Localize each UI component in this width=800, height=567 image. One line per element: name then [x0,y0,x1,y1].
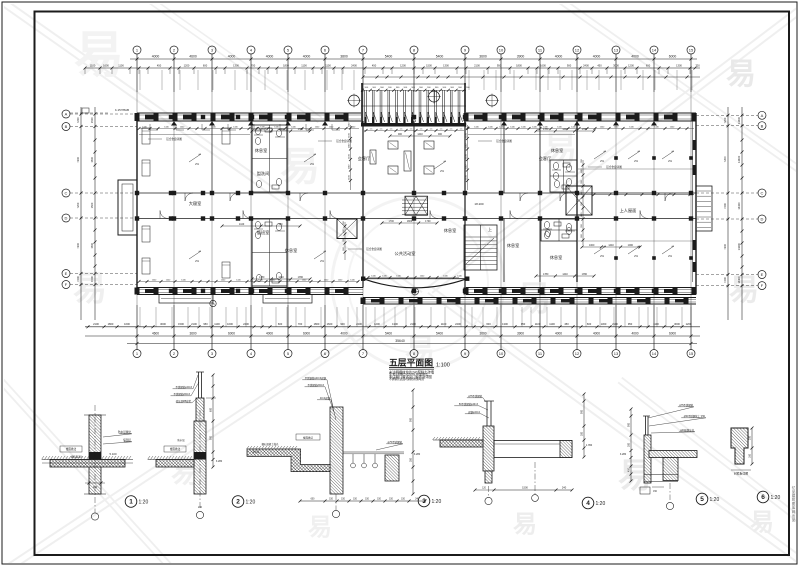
svg-text:1: 1 [129,499,133,506]
svg-text:上: 上 [488,226,492,232]
svg-text:不锈钢管φ50×3: 不锈钢管φ50×3 [308,383,325,387]
svg-text:14400: 14400 [737,155,741,163]
svg-text:950: 950 [521,322,526,326]
svg-text:14400: 14400 [737,202,741,210]
svg-text:240: 240 [93,485,98,489]
svg-text:3900: 3900 [517,54,525,58]
svg-text:易: 易 [280,145,320,189]
svg-text:700: 700 [298,322,303,326]
svg-text:φ50不锈钢管上下50: φ50不锈钢管上下50 [684,414,706,418]
svg-text:1600: 1600 [124,322,130,326]
svg-text:1300: 1300 [676,63,682,67]
svg-text:1100: 1100 [214,322,220,326]
svg-text:1300: 1300 [443,63,449,67]
svg-text:D: D [65,216,68,221]
svg-text:2100: 2100 [191,322,197,326]
svg-text:1100: 1100 [301,63,307,67]
svg-text:1100: 1100 [325,63,331,67]
svg-text:35640: 35640 [395,339,405,343]
svg-text:900: 900 [438,133,443,136]
svg-text:15: 15 [689,48,694,53]
svg-text:150: 150 [279,223,284,226]
svg-text:五层平面图: 五层平面图 [389,358,433,368]
svg-text:900: 900 [210,435,213,440]
svg-text:3600: 3600 [479,331,486,335]
svg-text:900: 900 [340,322,345,326]
svg-text:易: 易 [308,514,332,541]
svg-text:铝合金窗详图: 铝合金窗详图 [606,165,622,169]
svg-text:4000: 4000 [555,54,563,58]
svg-text:7200: 7200 [76,117,80,123]
svg-text:3: 3 [422,498,426,505]
svg-text:1:100: 1:100 [436,363,450,369]
svg-text:2400: 2400 [351,63,357,67]
svg-text:7200: 7200 [76,202,80,208]
svg-text:休息室: 休息室 [550,254,563,261]
svg-text:2400: 2400 [243,322,249,326]
svg-text:楼面做法: 楼面做法 [303,435,314,439]
svg-text:240: 240 [198,506,203,509]
svg-text:4000: 4000 [555,331,562,335]
svg-text:13: 13 [614,351,619,356]
svg-text:C: C [761,191,764,196]
svg-text:保温层: 保温层 [123,438,131,442]
svg-text:7200: 7200 [723,117,727,123]
svg-text:1500: 1500 [90,156,94,162]
svg-text:1:20: 1:20 [432,499,442,505]
svg-text:900: 900 [410,417,413,422]
svg-text:φ75不锈钢管: φ75不锈钢管 [679,403,693,407]
svg-text:C: C [65,191,68,196]
svg-text:楼面做法: 楼面做法 [170,447,181,451]
svg-text:5400: 5400 [385,331,392,335]
svg-text:450: 450 [628,467,631,472]
svg-text:1.5: 1.5 [450,128,453,130]
svg-text:4000: 4000 [631,54,639,58]
svg-text:7200: 7200 [723,203,727,209]
svg-text:防水层做法: 防水层做法 [118,430,131,434]
svg-text:3600: 3600 [479,54,487,58]
svg-text:950: 950 [628,322,633,326]
svg-text:350: 350 [410,457,413,462]
svg-text:1:20: 1:20 [710,497,720,503]
svg-text:休息室: 休息室 [507,242,520,249]
svg-text:5400: 5400 [436,54,444,58]
svg-text:1600: 1600 [103,63,109,67]
svg-text:细石混凝土: 细石混凝土 [71,455,84,459]
svg-text:1.5: 1.5 [380,128,383,130]
svg-text:铝合金窗详图: 铝合金窗详图 [166,137,182,141]
svg-text:2100: 2100 [410,322,416,326]
svg-text:10: 10 [499,48,504,53]
svg-text:1.5: 1.5 [390,128,393,130]
svg-text:1800: 1800 [314,322,320,326]
svg-text:700: 700 [251,63,256,67]
svg-text:600: 600 [210,407,213,412]
svg-text:10: 10 [499,351,504,356]
svg-text:1100: 1100 [343,228,345,233]
svg-text:1800: 1800 [108,322,114,326]
svg-text:4000: 4000 [152,54,160,58]
svg-text:1300: 1300 [502,322,508,326]
svg-text:1100: 1100 [549,322,555,326]
svg-text:1.5: 1.5 [400,128,403,130]
svg-text:1440: 1440 [562,273,568,276]
svg-text:1600: 1600 [327,322,333,326]
svg-text:600: 600 [203,63,208,67]
svg-text:1500: 1500 [178,322,184,326]
svg-text:1.5: 1.5 [440,128,443,130]
svg-text:15: 15 [689,351,694,356]
svg-text:1300: 1300 [233,63,239,67]
svg-text:1500: 1500 [426,63,432,67]
svg-text:扁钢φ40×4: 扁钢φ40×4 [468,410,480,414]
svg-text:300: 300 [628,442,631,447]
svg-text:7200: 7200 [723,243,727,249]
svg-text:3000: 3000 [674,322,680,326]
svg-text:2100: 2100 [474,63,480,67]
svg-text:1500: 1500 [90,117,94,123]
svg-text:值班室: 值班室 [257,229,270,236]
svg-text:1350: 1350 [582,273,588,276]
svg-text:1800: 1800 [516,63,522,67]
svg-text:1100: 1100 [581,168,583,173]
svg-text:大寝室: 大寝室 [189,200,202,207]
svg-text:4000: 4000 [228,54,236,58]
svg-text:3000: 3000 [613,63,619,67]
svg-text:900: 900 [398,133,403,136]
svg-text:不锈钢管φ40×3: 不锈钢管φ40×3 [176,385,193,389]
svg-text:盥洗间: 盥洗间 [257,170,270,177]
svg-text:铝合金窗详图: 铝合金窗详图 [336,139,352,143]
svg-text:5400: 5400 [436,331,443,335]
svg-text:600: 600 [587,322,592,326]
svg-text:1780: 1780 [298,128,304,131]
svg-text:950: 950 [203,322,208,326]
svg-text:A: A [65,112,68,117]
svg-text:1:20: 1:20 [246,500,256,506]
svg-text:1600: 1600 [540,63,546,67]
svg-text:易: 易 [726,58,756,91]
svg-text:1350: 1350 [298,276,304,279]
svg-text:5400: 5400 [385,54,393,58]
svg-text:公共活动室: 公共活动室 [395,250,416,257]
svg-text:5: 5 [700,496,704,503]
svg-text:会客厅: 会客厅 [358,155,371,162]
svg-text:1700: 1700 [389,220,395,223]
svg-text:D: D [761,217,764,222]
svg-text:φ75不锈钢管: φ75不锈钢管 [468,394,482,398]
svg-text:12: 12 [575,48,580,53]
svg-text:3800: 3800 [340,54,348,58]
svg-text:1440: 1440 [608,244,614,247]
svg-text:b.15?/8AB: b.15?/8AB [115,108,129,112]
svg-text:6: 6 [761,494,765,501]
svg-text:B: B [761,123,764,128]
svg-text:160: 160 [749,453,752,458]
svg-text:450: 450 [372,63,377,67]
svg-text:1100: 1100 [118,63,124,67]
svg-text:600: 600 [486,322,491,326]
svg-text:1100: 1100 [581,190,583,195]
svg-text:休息室: 休息室 [551,147,564,154]
svg-text:3.280: 3.280 [414,453,421,456]
svg-text:18.200: 18.200 [474,202,484,206]
svg-text:900: 900 [581,409,584,414]
svg-text:1440: 1440 [417,133,423,136]
svg-text:2400: 2400 [455,322,461,326]
svg-text:13: 13 [614,48,619,53]
svg-text:封檐板详图: 封檐板详图 [734,472,748,476]
svg-text:不锈钢管φ50×3: 不锈钢管φ50×3 [174,392,191,396]
svg-text:14400: 14400 [737,116,741,124]
svg-text:1200: 1200 [400,63,406,67]
svg-text:铝合金窗详图: 铝合金窗详图 [496,139,512,143]
svg-text:7200: 7200 [76,156,80,162]
svg-text:1:20: 1:20 [596,501,606,507]
svg-text:1:20: 1:20 [771,495,781,501]
svg-text:1800: 1800 [407,220,413,223]
svg-text:1.5: 1.5 [460,128,463,130]
svg-text:防水层: 防水层 [177,438,185,442]
svg-text:1440: 1440 [278,276,284,279]
svg-text:4600: 4600 [152,331,159,335]
svg-text:1000: 1000 [628,244,634,247]
svg-text:1300: 1300 [601,322,607,326]
svg-text:E: E [761,272,764,277]
svg-text:4000: 4000 [266,331,273,335]
svg-text:φ75不锈钢管: φ75不锈钢管 [388,440,403,444]
svg-text:E: E [65,271,68,276]
svg-text:4000: 4000 [593,331,600,335]
svg-text:4000: 4000 [631,331,638,335]
svg-text:B: B [65,124,68,129]
svg-text:1800: 1800 [283,63,289,67]
svg-text:7200: 7200 [723,156,727,162]
svg-text:5.100: 5.100 [110,452,117,456]
svg-text:1200: 1200 [628,63,634,67]
svg-text:2: 2 [236,499,240,506]
svg-text:1440: 1440 [278,128,284,131]
svg-text:200: 200 [749,435,752,440]
svg-text:14: 14 [652,351,657,356]
svg-text:600: 600 [646,63,651,67]
svg-text:4000: 4000 [593,54,601,58]
svg-text:40×4扁钢: 40×4扁钢 [320,396,331,400]
svg-text:6000: 6000 [303,331,310,335]
svg-text:7200: 7200 [723,277,727,283]
svg-text:600: 600 [278,322,283,326]
svg-text:6000: 6000 [669,331,676,335]
svg-text:450: 450 [157,63,162,67]
svg-text:易: 易 [750,509,774,536]
svg-text:易: 易 [74,27,124,83]
svg-text:细石混凝土抛光: 细石混凝土抛光 [262,442,279,446]
svg-text:1780: 1780 [259,276,265,279]
svg-text:14400: 14400 [737,243,741,251]
svg-text:注:未注明栂台均为(±0.00)处做法: 注:未注明栂台均为(±0.00)处做法 [389,372,428,376]
svg-text:1440: 1440 [239,223,245,226]
svg-text:1700: 1700 [425,220,431,223]
svg-text:休息室: 休息室 [444,227,457,234]
svg-text:1.5: 1.5 [370,128,373,130]
svg-text:1500: 1500 [90,202,94,208]
svg-text:1500: 1500 [522,485,528,489]
svg-text:2100: 2100 [612,322,618,326]
svg-text:1000: 1000 [589,244,595,247]
svg-text:1.5: 1.5 [420,128,423,130]
svg-text:砖压顶M5砂浆: 砖压顶M5砂浆 [176,399,192,403]
svg-text:会客厅: 会客厅 [539,155,552,162]
svg-text:240: 240 [562,485,567,489]
svg-text:3.280: 3.280 [216,460,223,463]
svg-text:易: 易 [729,274,759,307]
svg-text:3.280: 3.280 [620,453,627,456]
svg-text:900: 900 [628,422,631,427]
svg-text:4000: 4000 [303,54,311,58]
svg-text:不锈钢管表面均刷防锈漆两道: 不锈钢管表面均刷防锈漆两道 [389,377,424,381]
svg-text:300: 300 [581,431,584,436]
svg-text:4000: 4000 [340,331,347,335]
svg-text:1.5: 1.5 [410,128,413,130]
svg-text:1100: 1100 [90,63,96,67]
svg-text:φ40扁钢立柱: φ40扁钢立柱 [680,428,694,432]
svg-text:1.350: 1.350 [586,444,593,447]
svg-text:不锈钢管φ40×3扁钢: 不锈钢管φ40×3扁钢 [305,376,327,380]
svg-text:A: A [761,113,764,118]
svg-text:14400: 14400 [737,276,741,284]
svg-text:上人屋面: 上人屋面 [620,207,637,214]
svg-text:3000: 3000 [160,322,166,326]
svg-text:50不锈钢管φ40×3: 50不锈钢管φ40×3 [459,402,479,406]
svg-text:1500: 1500 [90,276,94,282]
svg-text:品: 品 [792,517,796,522]
svg-text:1100: 1100 [441,322,447,326]
svg-text:1300: 1300 [392,322,398,326]
svg-text:3600: 3600 [189,331,196,335]
svg-text:7200: 7200 [76,276,80,282]
svg-text:休息室: 休息室 [255,147,268,154]
svg-text:1:20: 1:20 [139,500,149,506]
svg-text:4000: 4000 [266,54,274,58]
svg-text:450: 450 [597,63,602,67]
svg-text:1780: 1780 [543,273,549,276]
svg-text:900: 900 [567,63,572,67]
svg-text:4: 4 [586,500,590,507]
svg-text:铝合金窗详图: 铝合金窗详图 [366,247,382,251]
svg-text:休息室: 休息室 [285,247,298,254]
svg-text:易: 易 [513,511,537,538]
svg-text:1.5: 1.5 [430,128,433,130]
svg-text:12: 12 [575,351,580,356]
svg-text:7200: 7200 [76,242,80,248]
svg-text:4600: 4600 [189,54,197,58]
svg-text:楼面做法: 楼面做法 [66,447,77,451]
svg-text:1200: 1200 [184,63,190,67]
svg-text:3900: 3900 [517,331,524,335]
svg-text:14: 14 [652,48,657,53]
svg-text:2400: 2400 [583,63,589,67]
svg-text:易: 易 [73,270,107,308]
svg-text:6000: 6000 [669,54,677,58]
svg-text:2100: 2100 [93,322,99,326]
svg-text:6000: 6000 [228,331,235,335]
svg-text:450: 450 [564,322,569,326]
svg-text:1600: 1600 [227,322,233,326]
